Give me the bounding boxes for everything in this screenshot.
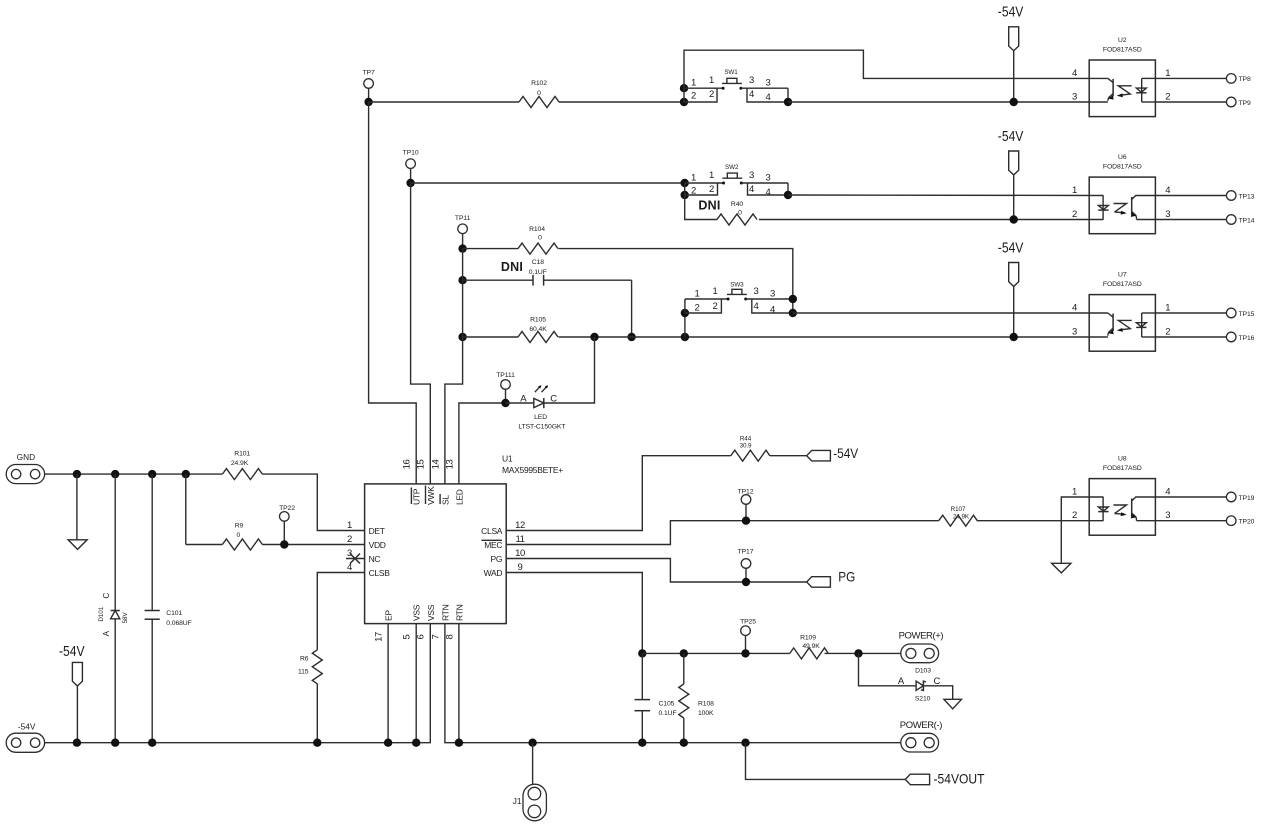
svg-text:POWER(+): POWER(+) xyxy=(899,631,944,642)
svg-text:3: 3 xyxy=(754,286,759,297)
svg-text:4: 4 xyxy=(1165,487,1170,498)
svg-text:1: 1 xyxy=(691,173,696,184)
junction R108 top node xyxy=(680,649,688,657)
svg-text:4: 4 xyxy=(749,184,754,195)
test point TP22 xyxy=(279,505,295,544)
svg-text:UTP: UTP xyxy=(412,488,422,505)
svg-text:D101: D101 xyxy=(98,606,105,621)
ground symbol left xyxy=(68,474,87,549)
svg-text:100K: 100K xyxy=(698,710,714,717)
svg-text:VSS: VSS xyxy=(412,604,422,621)
wire WAD row to R109 xyxy=(642,652,789,654)
svg-text:DNI: DNI xyxy=(501,260,523,274)
resistor R44 30.9 xyxy=(731,436,770,462)
svg-text:-54VOUT: -54VOUT xyxy=(934,770,985,786)
test point TP14 xyxy=(1226,215,1254,225)
svg-text:1: 1 xyxy=(709,75,714,86)
wire TP10 to U1 pin 15 xyxy=(411,183,431,484)
net flag -54VOUT xyxy=(905,770,985,786)
LED LTST-C150GKT xyxy=(518,385,565,430)
junction D101 top node xyxy=(111,470,119,478)
svg-text:2: 2 xyxy=(1072,510,1077,521)
wire R105 row to SW3 xyxy=(684,313,686,337)
resistor R107 24.9K xyxy=(939,506,978,526)
resistor R109 49.9K xyxy=(790,635,829,659)
svg-text:GND: GND xyxy=(17,452,35,462)
junction TP111 node xyxy=(501,399,509,407)
wire SW1 bypass to U2 pin 4 xyxy=(684,50,1089,88)
test point TP16 xyxy=(1226,332,1254,342)
junction TP12 node xyxy=(742,517,750,525)
svg-text:3: 3 xyxy=(770,289,775,300)
wire GND row xyxy=(45,473,223,475)
connector -54V xyxy=(6,721,44,752)
junction TP25 node xyxy=(741,649,749,657)
svg-text:U8: U8 xyxy=(1118,455,1127,462)
U1 pin 1 DET xyxy=(347,520,385,536)
svg-text:11: 11 xyxy=(515,534,524,545)
svg-text:2: 2 xyxy=(691,185,696,196)
U1 pin name UTP xyxy=(411,488,421,506)
svg-text:PG: PG xyxy=(838,568,855,584)
wire U8 pin 3 to TP20 xyxy=(1155,520,1227,522)
svg-text:U6: U6 xyxy=(1118,154,1127,161)
svg-text:58V: 58V xyxy=(122,612,129,624)
svg-text:17: 17 xyxy=(374,632,385,642)
wire TP11 to U1 pin 14 xyxy=(445,337,463,484)
junction TP11 C18 node xyxy=(458,276,466,284)
svg-text:C101: C101 xyxy=(166,610,182,617)
connector J1 xyxy=(513,743,547,821)
svg-text:CLSA: CLSA xyxy=(481,526,503,536)
wire R101 to U1 pin 1 xyxy=(262,474,364,530)
wire U7 pin 2 to TP16 xyxy=(1155,336,1227,338)
wire U1 pin 7 RTN xyxy=(445,624,901,743)
opto-coupler U2 xyxy=(1072,37,1170,117)
svg-text:30.9: 30.9 xyxy=(740,443,752,450)
resistor R40 xyxy=(717,201,757,225)
wire TP111 to LED xyxy=(506,402,534,404)
svg-text:SW1: SW1 xyxy=(724,69,738,76)
wire R109 to POWER(+) xyxy=(825,652,901,654)
U1 pin 4 CLSB xyxy=(347,562,390,578)
svg-text:R102: R102 xyxy=(531,80,547,87)
resistor R104 xyxy=(518,226,558,254)
U1 pin 11 MEC xyxy=(482,534,525,550)
svg-text:U2: U2 xyxy=(1118,37,1127,44)
resistor R6 115 xyxy=(298,650,322,743)
svg-text:TP14: TP14 xyxy=(1239,217,1255,224)
junction -54V row1 xyxy=(1010,98,1018,106)
svg-text:TP17: TP17 xyxy=(738,549,754,556)
svg-text:1: 1 xyxy=(709,170,714,181)
junction TP17 node xyxy=(742,578,750,586)
svg-text:4: 4 xyxy=(347,562,352,573)
svg-text:-54V: -54V xyxy=(59,644,85,660)
wire TP11 vertical segment xyxy=(462,249,464,281)
wire SW3 to U7 pin 4 xyxy=(793,312,1089,314)
junction bus C101 xyxy=(148,739,156,747)
test point TP11 xyxy=(455,215,471,249)
junction bus VSS5 xyxy=(412,739,420,747)
test point TP17 xyxy=(738,549,754,582)
wire TP10 to SW2 xyxy=(411,182,685,184)
svg-text:R6: R6 xyxy=(300,656,309,663)
svg-text:R109: R109 xyxy=(800,635,816,642)
svg-text:R105: R105 xyxy=(530,317,546,324)
svg-text:VSS: VSS xyxy=(426,604,436,621)
opto-coupler U7 xyxy=(1072,271,1170,351)
svg-text:2: 2 xyxy=(1165,92,1170,103)
net flag PG xyxy=(807,568,856,587)
svg-text:16: 16 xyxy=(402,460,413,470)
junction WAD row node xyxy=(638,649,646,657)
svg-text:TP7: TP7 xyxy=(363,70,375,77)
junction bus -54VOUT xyxy=(741,739,749,747)
svg-text:2: 2 xyxy=(347,534,352,545)
resistor R105 xyxy=(518,317,558,343)
svg-text:-54V: -54V xyxy=(998,240,1024,256)
svg-text:6: 6 xyxy=(416,634,427,639)
svg-text:R40: R40 xyxy=(731,201,743,208)
svg-text:DET: DET xyxy=(369,526,385,536)
wire R102 to SW1 xyxy=(559,101,684,103)
wire R9 to U1 pin 2 xyxy=(262,544,364,546)
wire U6 pin 4 to TP13 xyxy=(1155,195,1227,197)
wire bottom bus left xyxy=(45,624,431,743)
svg-text:C18: C18 xyxy=(532,259,544,266)
test point TP111 xyxy=(496,372,515,403)
svg-text:RTN: RTN xyxy=(454,604,464,621)
svg-text:3: 3 xyxy=(1072,327,1077,338)
svg-text:2: 2 xyxy=(709,184,714,195)
test point TP13 xyxy=(1226,191,1254,201)
wire U1 pin 10 PG to TP17 row xyxy=(506,559,807,583)
capacitor C18 xyxy=(463,259,632,285)
power -54V flag row2 xyxy=(998,129,1024,220)
svg-text:3: 3 xyxy=(1072,92,1077,103)
test point TP25 xyxy=(740,619,756,654)
U1 pin 2 VDD xyxy=(347,534,386,550)
power -54V flag row3 xyxy=(998,240,1024,337)
svg-text:R44: R44 xyxy=(740,436,752,443)
ground symbol U8 xyxy=(1052,563,1071,573)
svg-text:TP11: TP11 xyxy=(455,215,471,222)
svg-text:C105: C105 xyxy=(659,700,675,707)
svg-text:U1: U1 xyxy=(502,454,513,464)
U1 pin 3 NC xyxy=(346,548,380,564)
wire R105 row to U7 pin 3 xyxy=(559,336,1090,338)
connector GND xyxy=(6,452,44,484)
svg-text:1: 1 xyxy=(691,78,696,89)
svg-text:0: 0 xyxy=(538,235,542,242)
wire U6 pin 3 to TP14 xyxy=(1155,219,1227,221)
svg-text:4: 4 xyxy=(1072,68,1077,79)
junction TP22 node xyxy=(280,540,288,548)
svg-text:R104: R104 xyxy=(529,226,545,233)
switch SW2 xyxy=(681,164,793,199)
svg-text:U7: U7 xyxy=(1118,271,1127,278)
resistor R108 100K xyxy=(679,653,714,742)
wire R104 to SW3 pin 3 xyxy=(559,249,793,299)
zener diode D101 58V xyxy=(98,474,129,743)
svg-text:4: 4 xyxy=(1165,185,1170,196)
svg-text:3: 3 xyxy=(1165,510,1170,521)
svg-text:POWER(-): POWER(-) xyxy=(900,720,942,731)
wire SW2 to R40 xyxy=(685,195,717,220)
junction bus C105 xyxy=(638,739,646,747)
svg-text:FOD817ASD: FOD817ASD xyxy=(1103,163,1142,170)
svg-text:SW2: SW2 xyxy=(725,164,739,171)
net flag -54V mid xyxy=(807,445,859,461)
U1 pin 10 PG xyxy=(491,548,525,564)
resistor R101 xyxy=(222,450,262,479)
svg-text:LTST-C150GKT: LTST-C150GKT xyxy=(518,423,565,430)
svg-text:FOD817ASD: FOD817ASD xyxy=(1103,465,1142,472)
svg-text:A: A xyxy=(101,630,111,636)
svg-text:7: 7 xyxy=(430,634,441,639)
svg-text:2: 2 xyxy=(709,89,714,100)
svg-text:3: 3 xyxy=(347,548,352,559)
wire U8 pin 4 to TP19 xyxy=(1155,496,1227,498)
svg-text:2: 2 xyxy=(1165,327,1170,338)
svg-text:4: 4 xyxy=(766,187,771,198)
svg-text:S210: S210 xyxy=(915,696,931,703)
capacitor C101 xyxy=(145,474,192,743)
svg-text:C: C xyxy=(101,593,111,599)
wire U1 pin 13 to LED row xyxy=(459,403,506,484)
svg-text:4: 4 xyxy=(770,304,775,315)
junction bus D101 xyxy=(111,739,119,747)
svg-text:3: 3 xyxy=(766,78,771,89)
svg-text:TP19: TP19 xyxy=(1239,495,1255,502)
svg-text:VDD: VDD xyxy=(369,540,386,550)
junction TP7 node xyxy=(364,98,372,106)
svg-text:2: 2 xyxy=(691,91,696,102)
resistor R9 xyxy=(222,522,262,550)
junction C18 drop node xyxy=(627,333,635,341)
junction D103 branch xyxy=(854,649,862,657)
svg-text:3: 3 xyxy=(1165,209,1170,220)
test point TP10 xyxy=(403,150,419,183)
wire U1 pin 9 WAD down xyxy=(506,573,642,654)
junction SW3 input node xyxy=(681,333,689,341)
wire TP11 to R104 xyxy=(463,248,518,250)
connector POWER(+) xyxy=(899,631,944,663)
junction -54V row3 xyxy=(1010,333,1018,341)
svg-text:PG: PG xyxy=(491,554,503,564)
svg-text:D103: D103 xyxy=(915,667,931,674)
test point TP20 xyxy=(1226,516,1254,526)
switch SW3 xyxy=(681,281,797,317)
svg-text:VWK: VWK xyxy=(426,486,436,505)
svg-text:1: 1 xyxy=(695,289,700,300)
test point TP9 xyxy=(1226,97,1251,107)
svg-text:EP: EP xyxy=(384,610,394,621)
wire U2 pin 1 to TP8 xyxy=(1155,77,1227,79)
ground symbol D103 xyxy=(944,699,962,709)
svg-text:TP20: TP20 xyxy=(1239,519,1255,526)
svg-text:4: 4 xyxy=(1072,303,1077,314)
svg-text:-54V: -54V xyxy=(998,4,1024,20)
svg-text:-54V: -54V xyxy=(18,721,36,731)
svg-text:3: 3 xyxy=(766,173,771,184)
svg-text:4: 4 xyxy=(754,301,759,312)
junction bus -54V flag xyxy=(73,739,81,747)
svg-text:1: 1 xyxy=(1072,185,1077,196)
power -54V flag left xyxy=(59,644,85,743)
capacitor C105 xyxy=(635,653,677,742)
svg-text:1: 1 xyxy=(713,286,718,297)
junction R9 branch node xyxy=(182,470,190,478)
IC U1 MAX5995BETE+ xyxy=(365,454,564,624)
U1 pin name SL xyxy=(440,494,450,505)
wire TP7 to R102 xyxy=(369,101,519,103)
junction GND ground node xyxy=(73,470,81,478)
wire SW2 to U6 pin 1 xyxy=(788,194,1104,197)
svg-text:3: 3 xyxy=(749,170,754,181)
wire SW1 to U2 pin 3 xyxy=(788,101,1089,103)
svg-text:1: 1 xyxy=(347,520,352,531)
svg-text:NC: NC xyxy=(369,554,381,564)
svg-text:14: 14 xyxy=(430,460,441,470)
svg-text:3: 3 xyxy=(749,75,754,86)
svg-text:4: 4 xyxy=(766,92,771,103)
wire U1 pin 17 EP xyxy=(387,624,389,743)
junction bus R6 xyxy=(313,739,321,747)
wire to R9 xyxy=(186,544,223,546)
svg-text:RTN: RTN xyxy=(440,604,450,621)
diode D103 S210 xyxy=(898,667,941,702)
wire U1 pin 12 CLSA to R44 xyxy=(506,456,731,531)
svg-text:R107: R107 xyxy=(951,506,966,513)
test point TP19 xyxy=(1226,492,1254,502)
junction TP11 node xyxy=(458,244,466,252)
wire U1 pin 4 to R6 xyxy=(317,573,364,650)
svg-text:TP8: TP8 xyxy=(1239,76,1251,83)
svg-text:SW3: SW3 xyxy=(730,281,744,288)
junction TP11 R105 node xyxy=(458,333,466,341)
svg-text:TP25: TP25 xyxy=(740,619,756,626)
svg-text:0: 0 xyxy=(236,532,240,539)
svg-text:TP15: TP15 xyxy=(1239,311,1255,318)
wire R9 branch xyxy=(185,474,187,544)
opto-coupler U6 xyxy=(1072,154,1170,234)
wire U2 pin 2 to TP9 xyxy=(1155,101,1227,103)
wire LED to R105 row xyxy=(544,337,595,403)
svg-text:4: 4 xyxy=(749,89,754,100)
svg-text:0.1UF: 0.1UF xyxy=(529,269,547,276)
test point TP8 xyxy=(1226,74,1251,84)
svg-text:-54V: -54V xyxy=(833,445,859,461)
switch SW1 xyxy=(680,69,792,106)
U1 pin name VWK xyxy=(426,486,436,506)
svg-text:24.9K: 24.9K xyxy=(231,460,249,467)
svg-text:1: 1 xyxy=(1072,487,1077,498)
junction TP10 node xyxy=(406,179,414,187)
test point TP15 xyxy=(1226,308,1254,318)
svg-text:LED: LED xyxy=(534,414,547,421)
svg-text:LED: LED xyxy=(454,489,464,505)
svg-text:TP22: TP22 xyxy=(279,505,295,512)
test point TP12 xyxy=(738,489,754,521)
wire U8 pin 1 to ground xyxy=(1061,497,1103,563)
power -54V flag row1 xyxy=(998,4,1024,102)
junction bus RTN8 xyxy=(455,739,463,747)
wire C18 to R105 row xyxy=(631,280,633,337)
svg-text:1: 1 xyxy=(1165,68,1170,79)
resistor R102 xyxy=(519,80,559,108)
svg-text:MEC: MEC xyxy=(484,540,502,550)
wire U1 pin 11 MEC to TP12 row xyxy=(506,521,939,545)
svg-text:TP10: TP10 xyxy=(403,150,419,157)
junction bus EP xyxy=(384,739,392,747)
junction -54V row2 xyxy=(1010,215,1018,223)
svg-text:CLSB: CLSB xyxy=(369,568,391,578)
junction bus R108 xyxy=(680,739,688,747)
opto-coupler U8 xyxy=(1072,455,1170,535)
junction C101 top node xyxy=(148,470,156,478)
svg-text:TP9: TP9 xyxy=(1239,100,1251,107)
svg-text:SL: SL xyxy=(440,495,450,505)
svg-text:-54V: -54V xyxy=(998,129,1024,145)
svg-text:TP111: TP111 xyxy=(496,372,515,379)
svg-text:2: 2 xyxy=(695,302,700,313)
wire U1 pin 8 RTN xyxy=(458,624,460,743)
svg-text:MAX5995BETE+: MAX5995BETE+ xyxy=(502,465,563,475)
wire TP11 to R105 xyxy=(463,280,518,337)
svg-text:8: 8 xyxy=(444,634,455,639)
svg-text:5: 5 xyxy=(402,634,413,639)
wire to diode D103 xyxy=(859,653,917,685)
junction bus J1 xyxy=(528,739,536,747)
wire to -54VOUT flag xyxy=(746,743,906,780)
svg-text:R101: R101 xyxy=(234,450,250,457)
svg-text:TP16: TP16 xyxy=(1239,335,1255,342)
U1 pin 9 WAD xyxy=(484,562,523,578)
svg-text:TP13: TP13 xyxy=(1239,193,1255,200)
svg-text:R108: R108 xyxy=(698,700,714,707)
test point TP7 xyxy=(363,70,375,103)
svg-text:2: 2 xyxy=(713,301,718,312)
svg-text:12: 12 xyxy=(515,520,525,531)
junction LED drop node xyxy=(590,333,598,341)
wire R107 to U8 pin 2 xyxy=(977,520,1104,522)
wire TP7 to U1 pin 16 xyxy=(369,102,417,484)
svg-text:9: 9 xyxy=(518,562,523,573)
svg-text:DNI: DNI xyxy=(698,199,720,213)
svg-text:WAD: WAD xyxy=(484,568,503,578)
connector POWER(-) xyxy=(900,720,942,752)
svg-text:FOD817ASD: FOD817ASD xyxy=(1103,46,1142,53)
wire R44 to -54V flag xyxy=(770,455,807,457)
svg-text:0.1UF: 0.1UF xyxy=(659,710,677,717)
svg-text:R9: R9 xyxy=(235,522,244,529)
svg-text:0.068UF: 0.068UF xyxy=(166,620,191,627)
svg-text:10: 10 xyxy=(515,548,525,559)
svg-text:49.9K: 49.9K xyxy=(802,643,820,650)
svg-text:J1: J1 xyxy=(513,796,522,806)
svg-text:115: 115 xyxy=(298,669,309,676)
svg-text:13: 13 xyxy=(444,460,455,470)
wire U1 pin 5 VSS xyxy=(415,624,417,743)
svg-text:1: 1 xyxy=(1165,303,1170,314)
svg-text:FOD817ASD: FOD817ASD xyxy=(1103,281,1142,288)
wire U7 pin 1 to TP15 xyxy=(1155,312,1227,314)
wire R40 to U6 pin 2 xyxy=(759,219,1104,221)
svg-text:15: 15 xyxy=(416,460,427,470)
U1 pin 12 CLSA xyxy=(481,520,525,536)
